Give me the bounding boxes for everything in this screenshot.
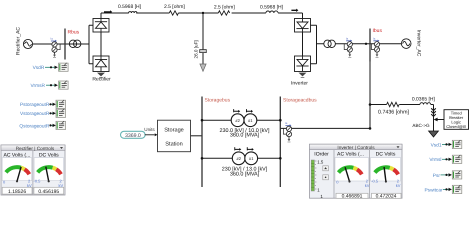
svg-text:Storagebus: Storagebus bbox=[205, 98, 231, 104]
svg-text:Closed@t0: Closed@t0 bbox=[446, 124, 467, 129]
svg-text:#2: #2 bbox=[235, 118, 240, 123]
svg-text:Rbus: Rbus bbox=[68, 30, 80, 36]
svg-text:Ibus: Ibus bbox=[373, 28, 383, 34]
svg-text:Inverter | Controls: Inverter | Controls bbox=[337, 145, 375, 150]
svg-text:Psr: Psr bbox=[433, 173, 441, 179]
svg-text:Inverter: Inverter bbox=[291, 81, 308, 87]
svg-text:VsdR: VsdR bbox=[33, 65, 45, 71]
svg-text:Storage: Storage bbox=[164, 128, 184, 134]
svg-text:VrmsR: VrmsR bbox=[31, 83, 46, 89]
svg-text:Storageacdbus: Storageacdbus bbox=[283, 98, 317, 104]
svg-text:0.5968 [H]: 0.5968 [H] bbox=[260, 5, 284, 11]
svg-text:ABC->G: ABC->G bbox=[412, 123, 430, 128]
svg-text:QstorageoutR: QstorageoutR bbox=[19, 123, 49, 129]
svg-text:Units: Units bbox=[144, 127, 155, 132]
svg-text:-0.5: -0.5 bbox=[371, 179, 379, 184]
svg-text:26.0 [uF]: 26.0 [uF] bbox=[194, 40, 199, 58]
svg-text:Rectifier_AC: Rectifier_AC bbox=[16, 27, 22, 55]
svg-text:1.18526: 1.18526 bbox=[8, 189, 26, 195]
svg-text:0.0365 [H]: 0.0365 [H] bbox=[412, 97, 436, 103]
svg-text:kV: kV bbox=[396, 183, 401, 188]
svg-text:0.472024: 0.472024 bbox=[376, 194, 397, 200]
svg-text:360.0 [MVA]: 360.0 [MVA] bbox=[230, 132, 260, 138]
svg-text:Station: Station bbox=[165, 141, 182, 148]
svg-text:PstorageoutR: PstorageoutR bbox=[20, 102, 50, 108]
svg-text:Rectifier | Controls: Rectifier | Controls bbox=[16, 146, 55, 151]
svg-text:#2: #2 bbox=[236, 156, 241, 161]
svg-text:kV: kV bbox=[365, 183, 370, 188]
svg-text:Rectifier: Rectifier bbox=[92, 77, 111, 83]
svg-text:-0.5: -0.5 bbox=[34, 179, 42, 184]
svg-text:#1: #1 bbox=[249, 156, 254, 161]
svg-text:Inverter_AC: Inverter_AC bbox=[416, 30, 422, 57]
svg-text:AC Volts (...: AC Volts (... bbox=[337, 152, 364, 158]
svg-text:0.5968 [H]: 0.5968 [H] bbox=[118, 4, 142, 10]
svg-text:IOrder: IOrder bbox=[314, 152, 329, 158]
svg-text:VstorageoutR: VstorageoutR bbox=[20, 111, 50, 117]
svg-text:0.7436 [ohm]: 0.7436 [ohm] bbox=[378, 110, 409, 116]
svg-text:0.456195: 0.456195 bbox=[38, 189, 59, 195]
svg-text:2.5 [ohm]: 2.5 [ohm] bbox=[214, 5, 235, 11]
svg-text:0.466891: 0.466891 bbox=[342, 194, 363, 200]
svg-text:1.5: 1.5 bbox=[317, 160, 324, 165]
svg-text:2.5 [ohm]: 2.5 [ohm] bbox=[164, 4, 185, 10]
svg-text:Vsd1: Vsd1 bbox=[431, 142, 442, 148]
svg-text:Pswitcar: Pswitcar bbox=[424, 187, 443, 193]
svg-text:360.0 [MVA]: 360.0 [MVA] bbox=[230, 171, 260, 177]
svg-text:#1: #1 bbox=[248, 118, 253, 123]
svg-text:Vrmsl: Vrmsl bbox=[429, 157, 441, 163]
svg-text:DC Volts: DC Volts bbox=[376, 152, 396, 158]
svg-text:3369.0: 3369.0 bbox=[125, 133, 141, 139]
